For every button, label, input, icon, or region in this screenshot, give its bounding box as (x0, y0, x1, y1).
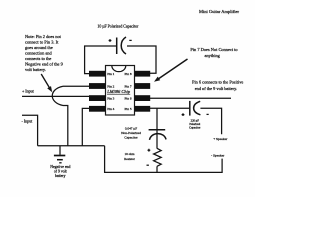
svg-text:Negative end: Negative end (50, 165, 70, 169)
svg-text:connect to Pin 3. It: connect to Pin 3. It (25, 40, 59, 45)
label negative battery (50, 165, 70, 178)
wire pin6 to battery positive (150, 97, 232, 99)
svg-text:Pin 4: Pin 4 (107, 107, 114, 111)
svg-text:anything: anything (205, 53, 221, 58)
wire ground rail (38, 145, 105, 147)
wire C3 to + speaker (200, 108, 221, 134)
resistor R1 zigzag (154, 148, 162, 166)
svg-text:battery: battery (55, 174, 66, 178)
capacitor C3 flat plate (189, 101, 191, 116)
svg-text:Pin 5: Pin 5 (125, 107, 132, 111)
resistor R1 minus mark (147, 164, 149, 166)
svg-text:end of the 9 volt battery.: end of the 9 volt battery. (195, 86, 237, 91)
resistor R1 plus mark (148, 149, 151, 152)
op-amp IC U1 LM386 body (106, 66, 135, 116)
arrowhead pin7 note (154, 77, 160, 82)
svg-text:connects to the: connects to the (25, 56, 51, 61)
pin 2 pad (89, 83, 106, 89)
label 10 ohm resistor R1 (124, 152, 136, 161)
pin 1 pad (89, 71, 106, 77)
capacitor C1 curved plate (121, 37, 126, 54)
svg-text:0.047 µF: 0.047 µF (125, 126, 137, 130)
wire pin2 to hop (63, 85, 90, 87)
svg-text:Negative end of the 9: Negative end of the 9 (25, 62, 64, 67)
svg-text:LM386 Chip: LM386 Chip (106, 89, 131, 94)
label 0.047uF capacitor C2 (121, 126, 141, 139)
svg-text:Capacitor: Capacitor (189, 126, 200, 130)
label 220uF capacitor C3 (189, 119, 201, 130)
svg-text:of 9 volt: of 9 volt (54, 170, 68, 174)
pin 3 pad (89, 95, 106, 101)
svg-text:10 µF Polarized Capacitor: 10 µF Polarized Capacitor (97, 24, 139, 28)
svg-text:Pin 3: Pin 3 (107, 97, 114, 101)
svg-text:Non-Polarized: Non-Polarized (121, 131, 141, 135)
svg-text:Pin 7: Pin 7 (125, 84, 132, 88)
svg-text:Mini Guitar Amplifier: Mini Guitar Amplifier (199, 9, 239, 14)
svg-text:+ Speaker: + Speaker (213, 137, 228, 141)
ground stem (59, 146, 61, 155)
arrowhead note to hop (47, 86, 52, 92)
pin 8 pad (135, 71, 151, 77)
capacitor C1 plus mark (109, 39, 112, 42)
wire hop bottom to ground rail (63, 106, 68, 146)
svg-text:10 ohm: 10 ohm (125, 152, 135, 156)
capacitor C1 minus mark (129, 39, 131, 41)
pin 5 pad (135, 106, 151, 112)
svg-text:Pin 2: Pin 2 (107, 84, 114, 88)
wire C1 right to pin8 (127, 46, 156, 73)
svg-text:- Speaker: - Speaker (211, 153, 225, 157)
svg-text:- Input: - Input (22, 118, 34, 123)
wire hop over input (52, 86, 63, 105)
arrow note to hop (41, 74, 49, 88)
svg-text:goes around the: goes around the (25, 45, 53, 50)
wire junction down to C2 (156, 108, 158, 148)
svg-text:Pin 1: Pin 1 (107, 72, 114, 76)
ground bar 2 (57, 159, 63, 161)
svg-text:Pin 7 Does Not Connect to: Pin 7 Does Not Connect to (190, 47, 238, 52)
svg-text:Capacitor: Capacitor (124, 135, 138, 139)
wire R1 to speaker rail (156, 166, 158, 172)
note pin 7 (190, 47, 238, 58)
ground bar 3 (59, 162, 61, 164)
svg-text:connection and: connection and (25, 51, 53, 56)
svg-text:+ Input: + Input (22, 88, 35, 93)
ground bar 1 (54, 155, 65, 157)
svg-text:Note: Pin 2 does not: Note: Pin 2 does not (25, 34, 62, 39)
pin 4 pad (89, 106, 106, 112)
svg-text:Pin 6: Pin 6 (125, 97, 132, 101)
wire + input to pin3 (22, 95, 90, 97)
wire pin5 to C3 (150, 107, 190, 109)
note pin 6 (192, 80, 243, 91)
note about pin 2 routing (25, 34, 64, 72)
capacitor C2 curved plate (150, 134, 167, 140)
IC notch (112, 66, 126, 72)
capacitor C2 flat plate (149, 129, 166, 131)
svg-text:Pin 8: Pin 8 (125, 72, 132, 76)
pin 7 pad (135, 83, 151, 89)
wire - input down to ground rail (22, 115, 38, 146)
svg-text:Resistor: Resistor (124, 157, 136, 161)
arrow pin7 note (158, 59, 188, 79)
wire pin4 to ground rail (82, 108, 90, 145)
capacitor C3 curved plate (194, 101, 201, 115)
capacitor C1 flat plate (116, 38, 118, 55)
capacitor C3 plus mark (182, 113, 185, 116)
capacitor C3 minus mark (207, 113, 209, 115)
svg-text:volt battery.: volt battery. (25, 67, 46, 72)
wire rail step down to speaker rail (105, 146, 223, 173)
wire pin1 to C1 left (85, 46, 116, 74)
svg-text:Pin 6 connects to the Positive: Pin 6 connects to the Positive (192, 80, 243, 85)
pin 6 pad (135, 95, 151, 101)
